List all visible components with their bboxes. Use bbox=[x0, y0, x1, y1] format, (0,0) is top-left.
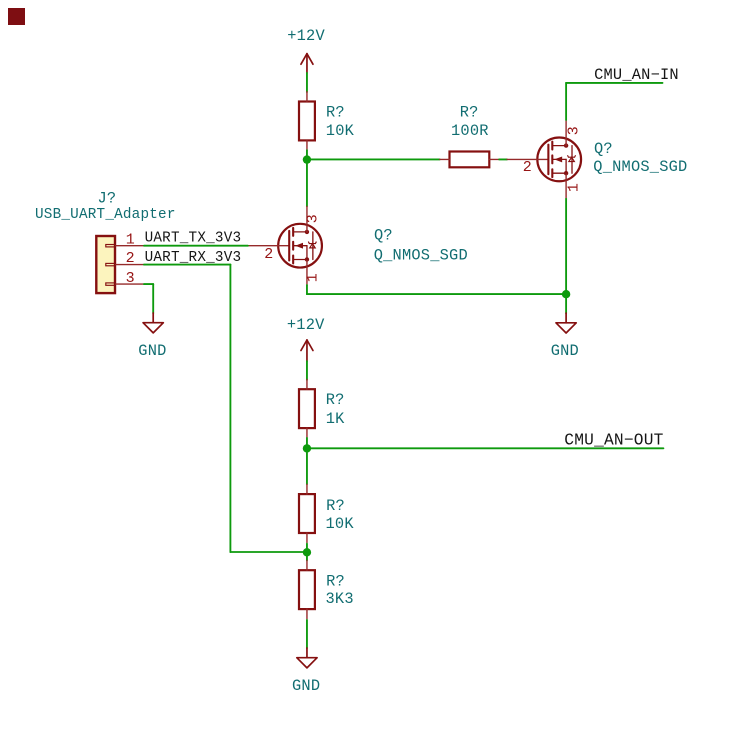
resistor R5 3K3 bbox=[299, 560, 354, 619]
svg-text:UART_RX_3V3: UART_RX_3V3 bbox=[145, 250, 242, 266]
svg-text:+12V: +12V bbox=[287, 316, 325, 334]
junction node C bbox=[303, 444, 311, 452]
wire J1 pin1 to Q2 gate bbox=[144, 245, 248, 247]
svg-text:1: 1 bbox=[304, 273, 321, 282]
wire Q2 source to bus bbox=[306, 285, 308, 294]
wire R2 to Q1 gate bbox=[499, 158, 507, 160]
svg-text:USB_UART_Adapter: USB_UART_Adapter bbox=[35, 207, 176, 223]
svg-text:1: 1 bbox=[126, 232, 135, 249]
svg-text:2: 2 bbox=[264, 246, 273, 263]
wire pin2 vertical bbox=[229, 265, 231, 552]
svg-text:+12V: +12V bbox=[287, 27, 325, 45]
wire R5 to GND bbox=[306, 620, 308, 648]
wire R1 to junction and down to Q2 drain bbox=[306, 150, 308, 206]
resistor R3 1K bbox=[299, 379, 345, 438]
svg-text:UART_TX_3V3: UART_TX_3V3 bbox=[145, 231, 242, 247]
transistor Q2 (middle) Q_NMOS_SGD bbox=[248, 206, 322, 285]
transistor Q1 (right) Q_NMOS_SGD bbox=[507, 120, 581, 199]
svg-text:1K: 1K bbox=[326, 410, 345, 428]
svg-text:R?: R? bbox=[326, 572, 345, 590]
svg-text:GND: GND bbox=[292, 677, 320, 695]
wire R3 to junction C and R4 bbox=[306, 438, 308, 484]
wire J1 pin3 bbox=[144, 283, 153, 285]
svg-text:10K: 10K bbox=[326, 515, 355, 533]
wire +12V to R3 bbox=[306, 361, 308, 380]
svg-text:R?: R? bbox=[460, 103, 479, 121]
svg-text:GND: GND bbox=[551, 342, 579, 360]
svg-text:R?: R? bbox=[326, 391, 345, 409]
wire source bus bbox=[307, 293, 566, 295]
svg-text:GND: GND bbox=[138, 342, 166, 360]
svg-text:3: 3 bbox=[304, 214, 321, 223]
svg-text:3: 3 bbox=[565, 126, 582, 135]
svg-text:3K3: 3K3 bbox=[326, 590, 354, 608]
svg-text:CMU_AN−OUT: CMU_AN−OUT bbox=[564, 431, 663, 449]
svg-text:3: 3 bbox=[126, 270, 135, 287]
wire R4 to junction D bbox=[306, 544, 308, 561]
resistor R4 10K bbox=[299, 484, 354, 543]
svg-text:2: 2 bbox=[523, 159, 532, 176]
power +12V PWR1 bbox=[287, 27, 325, 73]
power +12V PWR2 bbox=[287, 316, 325, 361]
junction node D bbox=[303, 548, 311, 556]
ground GND bottom bbox=[292, 648, 320, 695]
resistor R1 10K bbox=[299, 92, 355, 151]
wire pin3 down bbox=[152, 284, 154, 313]
wire CMU_AN-OUT bbox=[307, 447, 663, 449]
ground GND right bbox=[551, 313, 579, 360]
svg-text:10K: 10K bbox=[326, 122, 355, 140]
svg-text:Q?: Q? bbox=[594, 140, 613, 158]
ground GND left bbox=[138, 313, 166, 360]
wire Q1 source down bbox=[565, 199, 567, 313]
svg-text:1: 1 bbox=[565, 183, 582, 192]
wire pin2 to junction C bbox=[230, 551, 307, 553]
svg-text:J?: J? bbox=[98, 189, 117, 207]
connector J1 USB_UART_Adapter bbox=[96, 236, 144, 293]
svg-text:R?: R? bbox=[326, 497, 345, 515]
svg-text:R?: R? bbox=[326, 103, 345, 121]
wire junction to R2 bbox=[307, 158, 440, 160]
svg-text:2: 2 bbox=[126, 250, 135, 267]
sheet corner artifact square bbox=[8, 8, 25, 25]
svg-text:100R: 100R bbox=[451, 122, 489, 140]
svg-text:Q_NMOS_SGD: Q_NMOS_SGD bbox=[593, 158, 687, 176]
svg-text:CMU_AN−IN: CMU_AN−IN bbox=[594, 66, 679, 84]
svg-text:Q?: Q? bbox=[374, 227, 393, 245]
wire J1 pin2 right bbox=[144, 264, 230, 266]
junction node A bbox=[303, 155, 311, 163]
wire CMU_AN-IN bbox=[566, 82, 662, 84]
resistor R2 100R bbox=[440, 103, 499, 167]
wire +12V to R1 bbox=[306, 73, 308, 92]
svg-text:Q_NMOS_SGD: Q_NMOS_SGD bbox=[374, 247, 468, 265]
wire Q1 drain up bbox=[565, 83, 567, 120]
junction node B bbox=[562, 290, 570, 298]
